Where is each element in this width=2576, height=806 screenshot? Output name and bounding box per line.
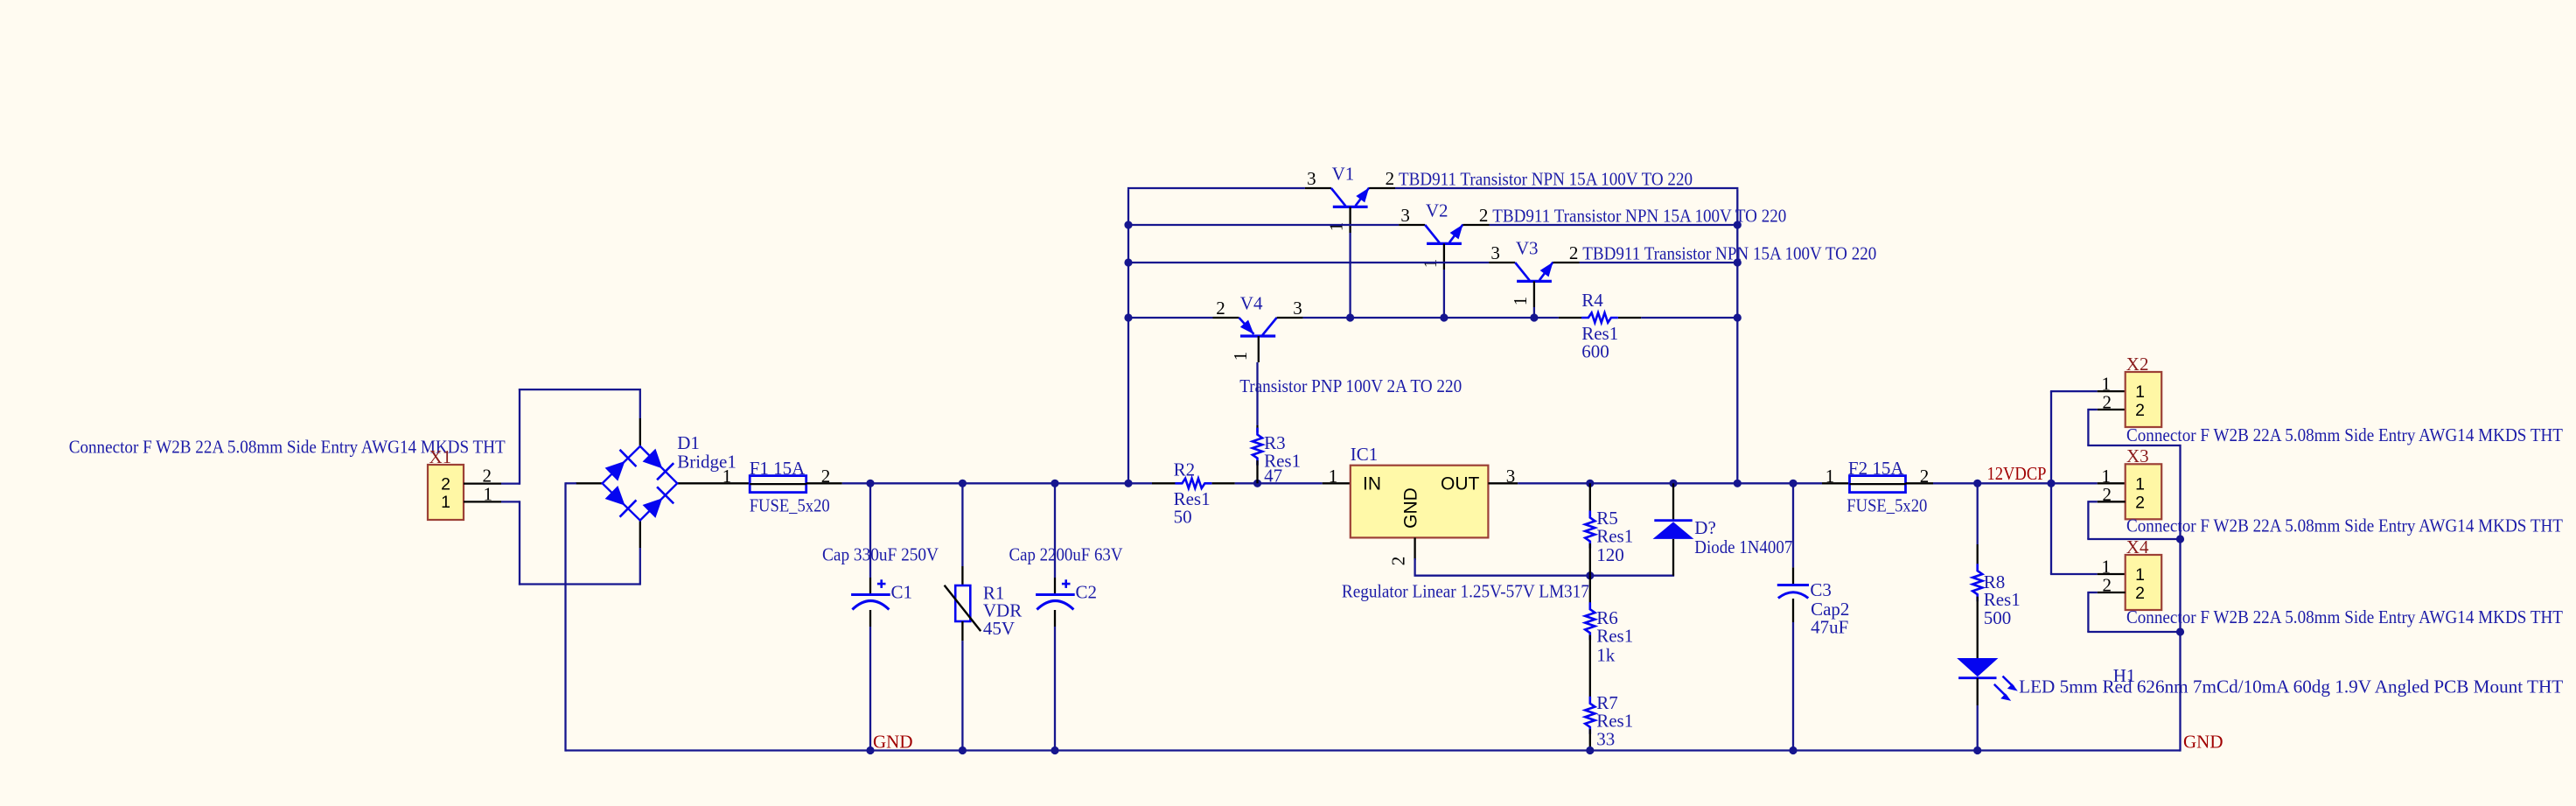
- bridge D1 comment: [677, 452, 736, 473]
- transistor V2 pin 1 stub: [1443, 243, 1445, 270]
- junction left vertical row2: [1124, 221, 1132, 228]
- svg-text:FUSE_5x20: FUSE_5x20: [750, 495, 830, 516]
- regulator IC1 pin name IN: [1363, 474, 1381, 494]
- resistor R2 pin 2: [1212, 482, 1235, 484]
- svg-text:F1 15A: F1 15A: [750, 458, 806, 479]
- junction V2 row4: [1440, 313, 1448, 321]
- connector X4 pin name 1: [2135, 565, 2145, 585]
- bridge D1 diode left-top: [605, 450, 637, 481]
- svg-text:R4: R4: [1581, 290, 1603, 311]
- svg-text:Connector F W2B 22A 5.08mm Sid: Connector F W2B 22A 5.08mm Side Entry AW…: [2126, 424, 2563, 445]
- resistor R2 designator: [1174, 459, 1196, 480]
- resistor R3: [1253, 428, 1262, 466]
- wire X2 feed to X3 pin1: [2051, 482, 2098, 484]
- capacitor C2 designator: [1076, 582, 1098, 603]
- connector X1 description label: [69, 437, 506, 458]
- svg-text:3: 3: [1307, 168, 1316, 189]
- svg-text:2: 2: [821, 466, 831, 487]
- wire X1 pin2 riser: [519, 389, 520, 485]
- svg-text:IN: IN: [1363, 474, 1381, 494]
- connector X4 description: [2126, 606, 2563, 627]
- regulator IC1 pin 2 stub: [1414, 537, 1415, 560]
- transistor V4 designator: [1240, 293, 1263, 314]
- connector X2 description: [2126, 424, 2563, 445]
- svg-text:D?: D?: [1694, 517, 1716, 538]
- resistor R2 type: [1174, 488, 1211, 509]
- junction C3 gnd: [1789, 746, 1797, 754]
- resistor R4 pin 2: [1618, 317, 1641, 319]
- resistor R7 type: [1596, 711, 1633, 732]
- wire row4 V3 to R4: [1534, 317, 1559, 319]
- capacitor C1 designator: [891, 582, 913, 603]
- svg-text:3: 3: [1506, 466, 1516, 487]
- bridge D1 diode bottom-right: [643, 487, 674, 518]
- svg-text:V3: V3: [1516, 238, 1539, 259]
- transistor V2 pin 3 number: [1400, 205, 1410, 226]
- resistor R6 designator: [1596, 607, 1618, 628]
- connector X3 designator: [2126, 445, 2149, 466]
- wire bottom to bridge: [519, 583, 640, 585]
- resistor R4 designator: [1581, 290, 1603, 311]
- capacitor C2 comment: [1009, 544, 1123, 565]
- led H1 pin 2: [1977, 630, 1979, 658]
- svg-text:D1: D1: [677, 432, 700, 453]
- connector X3: [2126, 464, 2162, 519]
- svg-text:3: 3: [1400, 205, 1410, 226]
- connector X4 designator: [2126, 536, 2149, 557]
- connector X4: [2126, 555, 2162, 610]
- svg-text:TBD911 Transistor NPN 15A 100V: TBD911 Transistor NPN 15A 100V TO 220: [1399, 169, 1693, 190]
- connector X2 pin 2 number: [2103, 392, 2112, 413]
- resistor R8 pin 1: [1977, 544, 1979, 569]
- fuse F1 label: [750, 458, 806, 479]
- capacitor C2 pin 1: [1054, 578, 1056, 595]
- wire X1 pin1 to vertical: [501, 501, 520, 502]
- wire X4 pin1 horizontal: [2050, 573, 2098, 575]
- transistor V4 comment: [1239, 375, 1462, 396]
- svg-text:1: 1: [1329, 466, 1338, 487]
- resistor R4 pin 1: [1559, 317, 1581, 319]
- connector X4 pin name 2: [2135, 584, 2145, 603]
- connector X1 designator: [429, 446, 452, 467]
- svg-text:Connector F W2B 22A 5.08mm Sid: Connector F W2B 22A 5.08mm Side Entry AW…: [2126, 606, 2563, 627]
- svg-text:F2 15A: F2 15A: [1848, 458, 1904, 479]
- transistor V3 designator: [1516, 238, 1539, 259]
- junction X3 bus: [2176, 535, 2184, 543]
- fuse F2: [1850, 476, 1906, 493]
- connector X2 pin name 1: [2135, 382, 2145, 402]
- capacitor C3 designator: [1810, 579, 1832, 600]
- wire right bus mid: [2179, 539, 2181, 632]
- bridge D1 diode top-right: [643, 449, 674, 480]
- wire right bus upper: [2179, 445, 2181, 539]
- capacitor C3 pin 1: [1792, 567, 1794, 585]
- svg-text:2: 2: [2103, 392, 2112, 413]
- diode D? pin 2: [1672, 483, 1674, 520]
- junction V3 row4: [1530, 313, 1538, 321]
- connector X2: [2126, 372, 2162, 427]
- wire IC1 to R5 rail: [1518, 482, 1590, 484]
- transistor V2 pin 2 stub: [1463, 224, 1490, 226]
- svg-text:500: 500: [1984, 607, 2012, 628]
- wire C3 drop: [1792, 483, 1794, 567]
- transistor V4 pin 3 stub: [1277, 317, 1303, 319]
- capacitor C3 type: [1811, 599, 1849, 620]
- svg-text:2: 2: [1388, 557, 1409, 566]
- regulator IC1 pin 2 number: [1388, 557, 1409, 566]
- svg-text:Connector F W2B 22A 5.08mm Sid: Connector F W2B 22A 5.08mm Side Entry AW…: [2126, 515, 2563, 536]
- svg-text:Regulator Linear 1.25V-57V LM3: Regulator Linear 1.25V-57V LM317: [1342, 581, 1589, 602]
- wire R4 to right vertical: [1641, 317, 1737, 319]
- fuse F2 pin 1 stub: [1822, 482, 1850, 484]
- diode D? pin 1: [1672, 539, 1674, 576]
- wire X2 feed vertical: [2050, 391, 2052, 574]
- regulator IC1 pin 1 number: [1329, 466, 1338, 487]
- transistor V1 pin 1 stub: [1349, 207, 1351, 233]
- resistor R5 pin 1: [1589, 483, 1591, 515]
- junction LED gnd: [1973, 746, 1981, 754]
- fuse F1 pin 2 number: [821, 466, 831, 487]
- transistor V4 pin 1 stub: [1258, 336, 1260, 362]
- svg-text:2: 2: [2103, 575, 2112, 596]
- led H1 pin 1: [1977, 678, 1979, 705]
- wire X3 pin2 drop: [2087, 501, 2089, 539]
- wire down to bridge top: [639, 389, 641, 418]
- wire C1 to R1 node: [870, 482, 962, 484]
- wire diode to right vertical: [1673, 482, 1737, 484]
- resistor R4 type: [1581, 323, 1618, 344]
- resistor R8: [1972, 564, 1982, 601]
- wire row1 right: [1395, 187, 1738, 189]
- junction diode rail: [1669, 480, 1677, 487]
- wire X2 pin2 left: [2088, 409, 2097, 410]
- connector X3 pin 2 number: [2103, 484, 2112, 505]
- svg-text:2: 2: [1920, 466, 1930, 487]
- wire row4 V2 to V3: [1444, 317, 1534, 319]
- net label GND left: [873, 732, 913, 753]
- junction right vertical row3: [1734, 258, 1742, 266]
- wire R2 to R3 node: [1235, 482, 1258, 484]
- transistor V3 pin 2 stub: [1553, 262, 1580, 263]
- resistor R3 designator: [1264, 432, 1286, 453]
- junction R3 rail: [1253, 480, 1261, 487]
- wire C2 drop: [1054, 483, 1056, 578]
- svg-text:C1: C1: [891, 582, 913, 603]
- resistor R8 type: [1984, 589, 2021, 610]
- fuse F2 pin 2 stub: [1906, 482, 1934, 484]
- wire C2 to GND: [1054, 627, 1056, 751]
- svg-text:LED 5mm Red 626nm 7mCd/10mA 60: LED 5mm Red 626nm 7mCd/10mA 60dg 1.9V An…: [2019, 676, 2563, 697]
- wire GND rail: [566, 749, 2181, 751]
- resistor R6 pin 2: [1589, 635, 1591, 668]
- junction left vertical row3: [1124, 258, 1132, 266]
- led H1 designator: [2113, 665, 2136, 686]
- svg-text:V1: V1: [1332, 164, 1355, 185]
- resistor R7 value: [1596, 729, 1615, 750]
- bridge D1 designator: [677, 432, 700, 453]
- svg-text:2: 2: [1479, 205, 1489, 226]
- wire X2 pin2 to bus: [2087, 445, 2180, 446]
- svg-text:C2: C2: [1076, 582, 1098, 603]
- diode D? comment: [1694, 536, 1792, 557]
- resistor R5 type: [1596, 526, 1633, 547]
- wire row3 left: [1128, 262, 1489, 263]
- regulator IC1 pin 3 stub: [1488, 482, 1518, 484]
- svg-text:IC1: IC1: [1351, 444, 1379, 465]
- connector X1 pin 1 number: [484, 483, 493, 504]
- svg-text:12VDCP: 12VDCP: [1987, 463, 2047, 484]
- svg-text:TBD911 Transistor NPN 15A 100V: TBD911 Transistor NPN 15A 100V TO 220: [1492, 206, 1786, 227]
- fuse F2 pin 2 number: [1920, 466, 1930, 487]
- junction C2 gnd: [1051, 746, 1058, 754]
- wire X2 pin1 horizontal: [2050, 390, 2098, 392]
- wire V2 emitter down: [1443, 270, 1445, 318]
- junction R1 gnd: [959, 746, 967, 754]
- wire C1 to GND: [869, 627, 871, 751]
- transistor V3 pin 3 stub: [1489, 262, 1515, 263]
- svg-text:OUT: OUT: [1441, 474, 1480, 494]
- transistor V1 pin 2 stub: [1369, 187, 1395, 189]
- junction X2 feed rail: [2047, 480, 2055, 487]
- wire V4 to R3: [1256, 362, 1258, 425]
- resistor R4: [1581, 312, 1618, 322]
- junction R5 R6 node: [1586, 571, 1594, 579]
- capacitor C3: [1777, 585, 1809, 599]
- transistor V1: [1331, 188, 1369, 207]
- connector X2 pin 2 stub: [2098, 409, 2126, 410]
- svg-text:Cap 330uF 250V: Cap 330uF 250V: [822, 544, 939, 565]
- resistor R8 designator: [1984, 571, 2006, 592]
- junction left vertical row4: [1124, 313, 1132, 321]
- transistor V1 pin 3 number: [1307, 168, 1316, 189]
- svg-text:Res1: Res1: [1596, 626, 1633, 647]
- wire C3 to F2: [1793, 482, 1822, 484]
- connector X2 designator: [2126, 354, 2149, 375]
- resistor R3 type: [1264, 450, 1301, 471]
- svg-text:1: 1: [1326, 222, 1347, 232]
- wire C3 to GND: [1792, 622, 1794, 751]
- resistor R6 pin 1: [1589, 576, 1591, 607]
- svg-text:45V: 45V: [983, 618, 1015, 639]
- diode D? designator: [1694, 517, 1716, 538]
- resistor R7 designator: [1596, 692, 1618, 713]
- transistor V2 pin 2 number: [1479, 205, 1489, 226]
- connector X3 pin 2 stub: [2098, 501, 2126, 502]
- resistor R2 pin 1: [1152, 482, 1176, 484]
- svg-text:1: 1: [2135, 474, 2145, 494]
- svg-text:1: 1: [2135, 382, 2145, 402]
- fuse F1: [750, 476, 806, 493]
- connector X2 pin name 2: [2135, 401, 2145, 420]
- regulator IC1 pin 1 stub: [1323, 482, 1351, 484]
- wire row4 left: [1128, 317, 1213, 319]
- junction R5 rail: [1586, 480, 1594, 487]
- wire X2 pin2 drop: [2087, 409, 2089, 445]
- junction R1 rail: [959, 480, 967, 487]
- resistor R5: [1585, 511, 1595, 549]
- wire row2 right: [1490, 224, 1738, 226]
- transistor V3 pin 1 stub: [1533, 281, 1535, 307]
- transistor V1 designator: [1332, 164, 1355, 185]
- svg-text:C3: C3: [1810, 579, 1832, 600]
- capacitor C2: [1036, 579, 1075, 609]
- connector X1: [428, 465, 464, 520]
- wire V3 emitter down: [1533, 307, 1535, 318]
- wire row2 left: [1128, 224, 1399, 226]
- wire R1 drop: [961, 483, 963, 566]
- wire top to bridge: [519, 389, 640, 390]
- junction right vertical row2: [1734, 221, 1742, 228]
- led H1 comment: [2019, 676, 2563, 697]
- wire R1 to C2 node: [962, 482, 1055, 484]
- resistor R4 value: [1581, 341, 1609, 362]
- transistor V3 pin 3 number: [1490, 242, 1500, 263]
- net label GND right: [2183, 732, 2223, 753]
- wire X1 pin2 to vertical: [501, 482, 520, 484]
- transistor V3 pin 1 number: [1510, 297, 1531, 306]
- svg-text:50: 50: [1174, 507, 1192, 528]
- transistor V4: [1239, 318, 1277, 336]
- diode D?: [1653, 521, 1694, 539]
- fuse F2 label: [1848, 458, 1904, 479]
- wire R1 to GND: [961, 641, 963, 750]
- wire right vertical to C3: [1737, 482, 1793, 484]
- svg-text:Transistor PNP 100V 2A TO 220: Transistor PNP 100V 2A TO 220: [1239, 375, 1462, 396]
- svg-text:GND: GND: [873, 732, 913, 753]
- connector X3 description: [2126, 515, 2563, 536]
- connector X3 pin 1 number: [2102, 466, 2112, 487]
- transistor V2: [1425, 225, 1463, 244]
- svg-text:V2: V2: [1426, 200, 1449, 221]
- wire bridge left to GND drop: [566, 482, 577, 484]
- capacitor C2 pin 2: [1054, 610, 1056, 627]
- svg-text:1: 1: [1510, 297, 1531, 306]
- regulator IC1: [1351, 466, 1489, 538]
- transistor V4 pin 2 stub: [1213, 317, 1239, 319]
- svg-text:2: 2: [2135, 493, 2145, 512]
- svg-text:GND: GND: [2183, 732, 2223, 753]
- svg-text:Diode 1N4007: Diode 1N4007: [1694, 536, 1792, 557]
- connector X3 pin name 2: [2135, 493, 2145, 512]
- bridge D1 bottom pin: [639, 521, 641, 548]
- wire row1 left: [1127, 187, 1305, 189]
- capacitor C1 pin 2: [869, 610, 871, 627]
- transistor V4 pin 2 number: [1216, 298, 1225, 319]
- connector X1 pin 2 number: [483, 466, 492, 487]
- transistor V1 comment: [1399, 169, 1693, 190]
- junction C1 gnd: [866, 746, 874, 754]
- resistor R2 value: [1174, 507, 1192, 528]
- transistor V2 pin 3 stub: [1399, 224, 1425, 226]
- resistor R5 designator: [1596, 508, 1618, 529]
- bridge rectifier D1 outline: [603, 446, 678, 521]
- svg-text:V4: V4: [1240, 293, 1263, 314]
- fuse F1 pin 2 stub: [806, 482, 842, 484]
- svg-text:33: 33: [1596, 729, 1615, 750]
- transistor V2 comment: [1492, 206, 1786, 227]
- junction V1 row4: [1346, 313, 1354, 321]
- junction R7 gnd: [1586, 746, 1594, 754]
- resistor R6 value: [1596, 644, 1616, 665]
- wire left vertical: [1127, 189, 1129, 484]
- resistor R3 pin 1: [1256, 425, 1258, 432]
- capacitor C1 comment: [822, 544, 939, 565]
- connector X2 pin 1 number: [2102, 374, 2112, 395]
- bridge D1 top pin: [639, 418, 641, 446]
- svg-text:3: 3: [1490, 242, 1500, 263]
- wire IC1 pin2 to R5 node: [1414, 575, 1590, 577]
- svg-text:2: 2: [441, 474, 450, 494]
- wire row3 right: [1580, 262, 1738, 263]
- wire X4 pin2 drop: [2087, 592, 2089, 632]
- connector X4 pin 2 number: [2103, 575, 2112, 596]
- svg-text:2: 2: [1569, 242, 1579, 263]
- connector X4 pin 1 number: [2102, 557, 2112, 578]
- wire to R2: [1128, 482, 1152, 484]
- junction C3 rail: [1789, 480, 1797, 487]
- wire IC1 pin 2 down: [1414, 558, 1415, 576]
- svg-text:3: 3: [1293, 298, 1302, 319]
- wire R5 node to diode: [1590, 575, 1674, 577]
- wire X3 pin2 to bus: [2087, 538, 2180, 540]
- regulator IC1 comment: [1342, 581, 1589, 602]
- wire R3 node to IC1: [1258, 482, 1323, 484]
- connector X1 pin name 1: [441, 493, 450, 512]
- junction right vertical row4: [1734, 313, 1742, 321]
- connector X1 pin 1 stub: [464, 501, 501, 502]
- varistor R1 value: [983, 618, 1015, 639]
- svg-text:TBD911 Transistor NPN 15A 100V: TBD911 Transistor NPN 15A 100V TO 220: [1582, 243, 1876, 264]
- transistor V3 comment: [1582, 243, 1876, 264]
- resistor R3 value: [1264, 465, 1282, 486]
- regulator IC1 pin name OUT: [1441, 474, 1480, 494]
- svg-text:Res1: Res1: [1596, 526, 1633, 547]
- connector X4 pin 1 stub: [2098, 573, 2126, 575]
- transistor V3 pin 2 number: [1569, 242, 1579, 263]
- svg-text:1k: 1k: [1596, 644, 1616, 665]
- resistor R7 pin 1: [1589, 668, 1591, 701]
- svg-text:1: 1: [723, 466, 732, 487]
- transistor V2 pin 1 number: [1420, 259, 1441, 269]
- wire F1 to C1 node: [842, 482, 870, 484]
- wire X1 pin1 drop: [519, 501, 520, 585]
- svg-text:FUSE_5x20: FUSE_5x20: [1846, 495, 1927, 516]
- varistor R1 pin 1: [961, 566, 963, 585]
- resistor R6: [1585, 602, 1595, 640]
- wire C2 to left vertical: [1055, 482, 1128, 484]
- svg-text:Cap 2200uF 63V: Cap 2200uF 63V: [1009, 544, 1123, 565]
- varistor R1 designator: [983, 582, 1005, 603]
- svg-text:1: 1: [1230, 352, 1251, 361]
- connector X4 pin 2 stub: [2098, 592, 2126, 593]
- resistor R3 pin 2: [1256, 460, 1258, 483]
- varistor R1 pin 2: [961, 621, 963, 641]
- wire row4 V1 to V2: [1351, 317, 1444, 319]
- wire right vertical: [1736, 189, 1738, 484]
- capacitor C3 pin 2: [1792, 599, 1794, 622]
- wire GND drop vertical: [564, 482, 566, 751]
- svg-text:47: 47: [1264, 465, 1282, 486]
- regulator IC1 pin 3 number: [1506, 466, 1516, 487]
- resistor R8 value: [1984, 607, 2012, 628]
- led H1: [1957, 658, 2018, 701]
- capacitor C1 pin 1: [869, 578, 871, 595]
- wire R8 node to X2 feed: [1978, 482, 2051, 484]
- svg-text:120: 120: [1596, 544, 1624, 565]
- fuse F1 footprint label: [750, 495, 830, 516]
- svg-text:2: 2: [2135, 401, 2145, 420]
- connector X3 pin 1 stub: [2098, 482, 2126, 484]
